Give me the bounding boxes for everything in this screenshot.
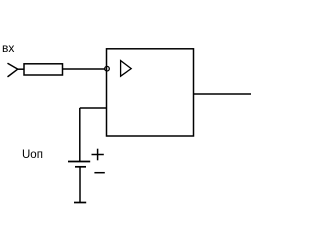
node circle at comparator input (105, 66, 110, 71)
svg-text:Uоп: Uоп (22, 149, 43, 161)
battery bottom terminal bar (74, 202, 86, 204)
resistor R1 (24, 64, 63, 75)
output wire (194, 93, 252, 95)
wire input arrow to resistor R (18, 68, 25, 70)
wire battery negative down (79, 167, 81, 203)
comparator block U1 (107, 49, 194, 136)
wire resistor to node (63, 68, 106, 70)
input terminal arrow (8, 64, 18, 77)
minus sign (94, 172, 104, 174)
svg-text:вх: вх (2, 41, 14, 55)
wire battery to comparator second input (horizontal) (80, 107, 107, 109)
battery positive plate (long) (68, 161, 90, 163)
plus sign (92, 149, 104, 161)
amplifier triangle symbol inside U1 (121, 61, 132, 77)
battery negative plate (short) (75, 166, 86, 168)
wire battery to comparator (vertical) (79, 108, 81, 162)
